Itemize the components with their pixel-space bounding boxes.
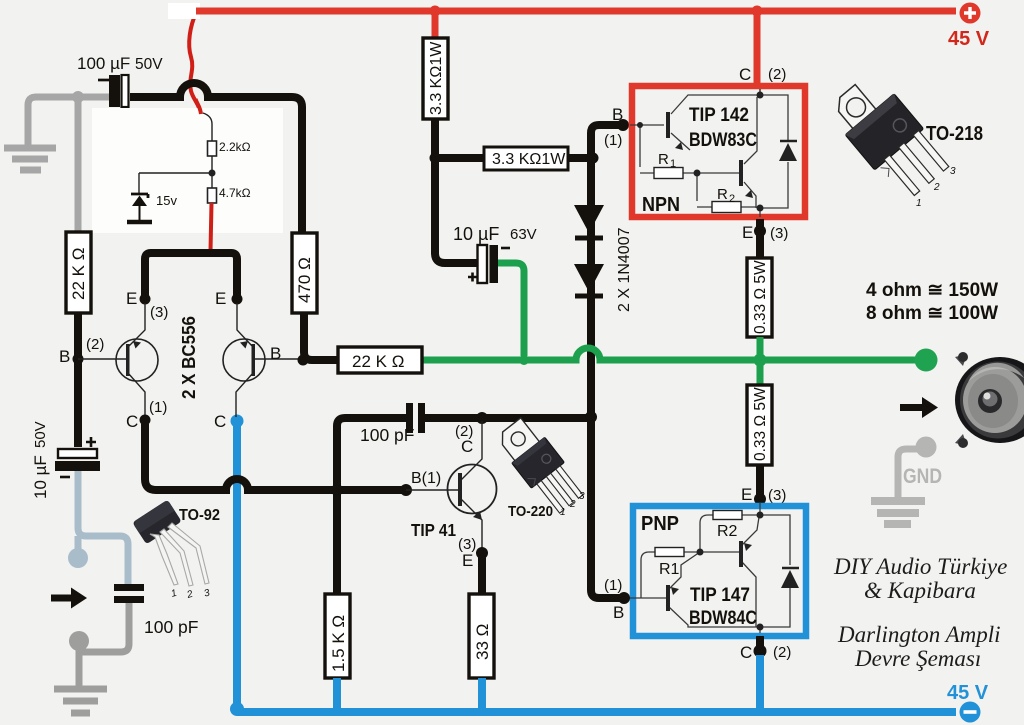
capacitor C4 100 pF (input) [114, 584, 144, 603]
wire red: +45V top rail [196, 8, 956, 15]
svg-text:3: 3 [950, 166, 956, 177]
svg-text:2 X BC556: 2 X BC556 [179, 316, 199, 399]
node: trunk junction at R5 [588, 153, 599, 164]
svg-text:B: B [270, 344, 281, 363]
U2 internal wiring [627, 503, 790, 633]
bias detail white inset box [92, 108, 283, 233]
svg-text:(3): (3) [770, 225, 788, 242]
package drawing TO-220 [493, 414, 587, 518]
wire black: C1 to 470ohm corner, hop over red wire [130, 83, 302, 233]
svg-text:C: C [126, 412, 138, 431]
wire green: output rail with hop over trunk [421, 348, 915, 360]
node E of U1 (3) [754, 225, 766, 237]
node: U1 base junction [637, 122, 643, 128]
svg-text:33 Ω: 33 Ω [473, 624, 492, 660]
wire black: emitter bridge Q3a/Q3b [145, 253, 237, 299]
wire blue: BC556 right collector down [233, 422, 241, 712]
svg-text:2 X 1N4007: 2 X 1N4007 [616, 227, 633, 312]
ground GND3 (input, gray) [54, 689, 107, 713]
svg-text:100 pF: 100 pF [144, 617, 198, 637]
node E of Q4 [476, 547, 488, 559]
terminal: shield tip (gray) [76, 641, 83, 652]
terminal: input tip (steel) [75, 536, 82, 549]
terminal -45V [960, 702, 981, 723]
svg-text:TIP 41: TIP 41 [411, 520, 456, 540]
speaker LS1 [955, 352, 1024, 448]
capacitor C3 10uF 50V (input) [55, 437, 100, 477]
wire black: NPN B trunk (down to PNP B) [591, 125, 622, 598]
node C blue of Q3b [231, 415, 244, 428]
svg-text:R1: R1 [659, 561, 680, 578]
svg-text:C: C [740, 643, 752, 662]
node: U1 R1 junction [694, 170, 701, 177]
node: junction at Q4 collector [476, 412, 488, 424]
wire red: rail down to NPN C [754, 11, 761, 85]
transistor Q2a bar [666, 585, 670, 611]
svg-text:(3): (3) [150, 304, 168, 321]
svg-text:DIY Audio Türkiye: DIY Audio Türkiye [833, 554, 1007, 579]
svg-text:2: 2 [933, 182, 940, 193]
svg-text:(3): (3) [768, 487, 786, 504]
package drawing TO-218 [825, 69, 953, 204]
node: U2 base-side junction [697, 549, 704, 556]
transistor Q1a bar [666, 112, 670, 138]
svg-text:BDW83C: BDW83C [689, 130, 757, 151]
svg-text:2: 2 [569, 499, 576, 510]
node: U2 top junction [757, 512, 764, 519]
svg-text:NPN: NPN [642, 194, 680, 216]
capacitor C2 10uF 63V [468, 245, 510, 283]
svg-text:R: R [717, 186, 728, 203]
node E of U2 (3) [754, 493, 766, 505]
svg-text:3: 3 [579, 491, 585, 502]
resistor R3 22 K Ohm (vertical) [66, 232, 91, 313]
resistor R2 (inside U2) [713, 511, 742, 520]
terminal +45V [960, 3, 981, 24]
terminal: GND dot [916, 437, 937, 458]
arrow to speaker [900, 397, 938, 418]
node: junction R4/R5 [430, 153, 441, 164]
resistor R11 33 Ohm [469, 594, 494, 678]
resistor R5 3.3 KOhm 1W (horizontal) [484, 147, 568, 170]
wire black: R7 to PNP E stub [756, 465, 764, 500]
wire black: feedback branch vertical [337, 418, 406, 594]
diode D5 (inside U2) [781, 568, 799, 588]
terminal: speaker output node [915, 349, 938, 372]
node C of U2 (2) [754, 645, 767, 658]
wire red: squiggle drop from +45V rail (under hop) [189, 13, 201, 114]
svg-text:1: 1 [916, 198, 922, 209]
transistor Q4 TIP41 [406, 421, 497, 553]
wire thin: 2.2k to node [139, 156, 212, 194]
wire black: R4 bottom down to C2 corner [435, 119, 477, 263]
svg-text:470 Ω: 470 Ω [295, 257, 314, 303]
resistor R10 1.5 K Ohm [325, 594, 350, 678]
node C of Q3a (1) [140, 415, 151, 426]
svg-text:C: C [739, 65, 751, 84]
svg-text:100 pF: 100 pF [360, 425, 414, 445]
node B of U1 (1) [617, 119, 629, 131]
node: green junction at R6/R7 [754, 354, 767, 367]
diode D2 1N4007 [574, 264, 604, 296]
capacitor C1 100uF 50V [98, 75, 129, 107]
svg-text:(2): (2) [773, 644, 791, 661]
svg-text:2: 2 [729, 193, 735, 205]
svg-text:0.33 Ω 5W: 0.33 Ω 5W [752, 260, 769, 334]
resistor R6 0.33 Ohm 5W [747, 258, 772, 337]
node: U1 top junction [757, 92, 764, 99]
svg-text:50V: 50V [32, 421, 49, 448]
zener diode D3 15v [127, 194, 152, 222]
resistor R4 3.3 KOhm 1W (vertical) [423, 38, 448, 119]
wire black: U2 C stub [756, 636, 764, 652]
wire blue: R10 to rail [333, 678, 341, 712]
svg-text:1.5 K Ω: 1.5 K Ω [329, 615, 348, 672]
wire red: rail to R4 top [432, 11, 439, 38]
wire green: R6 bottom to rail [757, 337, 764, 385]
ground GND2 (speaker return, gray) [871, 449, 926, 524]
svg-text:R2: R2 [717, 523, 738, 540]
resistor R8 470 Ohm (vertical) [292, 233, 317, 313]
svg-text:3.3 KΩ1W: 3.3 KΩ1W [492, 151, 566, 168]
wire blue: R11 to rail [478, 678, 486, 712]
arrow input [51, 588, 87, 609]
wire thin: inset top lead [203, 113, 212, 141]
wire gray: ground to 100uF C1 left plate [28, 97, 110, 145]
wire black: Q4 E to R11 [478, 553, 486, 594]
transistor Q1b emitter arrow [745, 190, 753, 198]
svg-text:B: B [613, 603, 624, 622]
node: U2 bottom junction [757, 624, 764, 631]
svg-text:PNP: PNP [641, 513, 679, 535]
node B of U2 (1) [618, 592, 630, 604]
svg-text:(2): (2) [86, 336, 104, 353]
svg-text:22 K Ω: 22 K Ω [352, 352, 404, 371]
svg-text:1: 1 [560, 507, 566, 518]
svg-text:B: B [612, 105, 623, 124]
resistor R7 0.33 Ohm 5W [747, 385, 772, 465]
node B of Q4 (TIP41) [400, 484, 412, 496]
wire red: 4.7k down to emitter bridge [211, 203, 212, 251]
diode D4 (inside U1) [779, 141, 797, 161]
svg-text:(2): (2) [768, 66, 786, 83]
wire black: Q3a collector run with hop over blue [145, 424, 403, 490]
package drawing TO-92 [132, 500, 209, 586]
resistor R1 (inside U1) [654, 168, 683, 179]
node: gray junction at 100uF left [72, 91, 84, 103]
node: junction at 1.5K branch [331, 484, 343, 496]
transistor Q3a BC556 [116, 303, 158, 417]
wire red: squiggle tail into inset [196, 99, 202, 114]
wire black: R5 to trunk [568, 154, 591, 162]
wire thin: base lead Q3a [78, 358, 126, 360]
svg-text:15v: 15v [156, 193, 177, 208]
svg-text:E: E [215, 289, 226, 308]
svg-text:45 V: 45 V [948, 28, 990, 50]
wire black: R3 bottom to C3 [74, 313, 82, 447]
svg-text:C: C [461, 437, 473, 456]
wire blue: U2 C down to -45V rail [756, 655, 764, 712]
node: junction R8/R9/base [298, 355, 309, 366]
resistor R2 (inside U1) [712, 202, 741, 213]
svg-text:1: 1 [670, 158, 676, 170]
wire steelblue: C3 to input node [78, 471, 128, 586]
resistor R1 (inside U2) [655, 548, 684, 557]
svg-text:TIP 142: TIP 142 [689, 105, 749, 126]
svg-text:2.2kΩ: 2.2kΩ [219, 140, 251, 154]
svg-text:C: C [214, 412, 226, 431]
node: inset divider junction [209, 170, 216, 177]
svg-text:4.7kΩ: 4.7kΩ [219, 186, 251, 200]
svg-text:& Kapibara: & Kapibara [864, 578, 976, 603]
svg-text:0.33 Ω 5W: 0.33 Ω 5W [752, 387, 769, 461]
svg-text:45 V: 45 V [947, 682, 989, 704]
node: rail junction at R4 [430, 6, 441, 17]
svg-text:8 ohm ≅ 100W: 8 ohm ≅ 100W [866, 303, 998, 324]
U1 internal wiring [630, 89, 788, 217]
transistor Q2b emitter arrow (PNP) [744, 543, 752, 551]
svg-text:22 K Ω: 22 K Ω [69, 248, 88, 300]
node: U1 bottom junction [757, 205, 764, 212]
wire black: U1 E stub [756, 219, 764, 258]
transistor Q3b BC556 [223, 303, 302, 417]
svg-text:R: R [658, 151, 669, 168]
capacitor C5 100 pF (feedback) [406, 403, 425, 433]
resistor R 2.2k (inset) [208, 141, 217, 156]
svg-text:TIP 147: TIP 147 [690, 585, 750, 606]
svg-text:100 µF: 100 µF [77, 54, 130, 73]
node: blue rail left end [230, 702, 244, 716]
svg-text:E: E [742, 223, 753, 242]
svg-text:4 ohm ≅ 150W: 4 ohm ≅ 150W [866, 280, 998, 301]
svg-text:BDW84C: BDW84C [689, 608, 757, 629]
op-amp U1 TIP142 darlington NPN module box [632, 86, 805, 217]
wire gray: drop to R3 22K top [75, 97, 82, 232]
wire blue: -45V bottom rail [237, 708, 956, 716]
svg-text:TO-92: TO-92 [179, 507, 220, 524]
transistor Q2a emitter arrow (PNP) [671, 587, 679, 595]
svg-text:Darlington Ampli: Darlington Ampli [837, 622, 1001, 647]
node E of Q3b [232, 294, 243, 305]
resistor R9 22 K Ohm (horizontal) [338, 347, 422, 373]
svg-text:GND: GND [903, 465, 942, 488]
svg-text:Devre Şeması: Devre Şeması [854, 646, 981, 671]
node: rail junction at NPN collector [752, 6, 763, 17]
wire green: C2 to output rail [498, 263, 524, 356]
svg-text:E: E [126, 289, 137, 308]
svg-text:10 µF: 10 µF [453, 224, 499, 244]
transistor Q1a emitter arrow [675, 142, 683, 150]
op-amp U2 TIP147 darlington PNP module box [633, 506, 806, 636]
svg-text:10 µF: 10 µF [31, 455, 50, 499]
wire black: junction to R5 [435, 154, 484, 162]
svg-text:(1): (1) [604, 577, 622, 594]
svg-text:(1): (1) [604, 132, 622, 149]
transistor Q1b bar [739, 160, 743, 186]
svg-text:E: E [462, 551, 473, 570]
svg-text:TO-220: TO-220 [508, 504, 553, 520]
wire black: R8 bottom to base node [304, 313, 338, 360]
label DIY Audio Turkiye & Kapibara [833, 554, 1007, 671]
ground GND1 (top-left, gray) [4, 148, 56, 170]
node E of Q3a [140, 294, 151, 305]
svg-text:63V: 63V [510, 226, 537, 243]
svg-text:3.3 KΩ1W: 3.3 KΩ1W [428, 41, 445, 115]
wire gray: C4 to ground [79, 603, 129, 686]
svg-text:50V: 50V [135, 56, 163, 73]
wire black: C5 to trunk [425, 414, 591, 422]
svg-text:B(1): B(1) [411, 470, 441, 487]
diode D1 1N4007 [574, 205, 604, 238]
resistor R 4.7k (inset) [208, 188, 217, 203]
svg-text:E: E [741, 485, 752, 504]
node: trunk junction at 100pF feed [585, 411, 597, 423]
node B of Q3a [73, 354, 84, 365]
svg-text:(1): (1) [149, 399, 167, 416]
svg-text:TO-218: TO-218 [926, 123, 983, 145]
node: green junction at C2 branch [519, 355, 529, 365]
svg-text:B: B [59, 347, 70, 366]
transistor Q2b bar [739, 541, 743, 567]
